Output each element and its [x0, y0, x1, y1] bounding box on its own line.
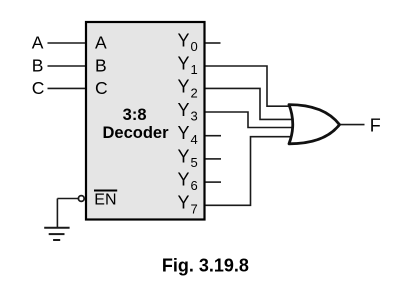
svg-text:C: C — [32, 78, 45, 98]
svg-text:Decoder: Decoder — [102, 124, 169, 142]
svg-text:F: F — [370, 116, 381, 136]
svg-text:EN: EN — [94, 192, 116, 209]
svg-text:B: B — [32, 56, 44, 76]
svg-text:A: A — [32, 33, 44, 53]
svg-text:Fig. 3.19.8: Fig. 3.19.8 — [162, 256, 249, 276]
svg-text:3:8: 3:8 — [123, 106, 147, 124]
svg-text:B: B — [95, 56, 107, 76]
svg-text:C: C — [95, 78, 108, 98]
svg-text:A: A — [95, 33, 107, 53]
